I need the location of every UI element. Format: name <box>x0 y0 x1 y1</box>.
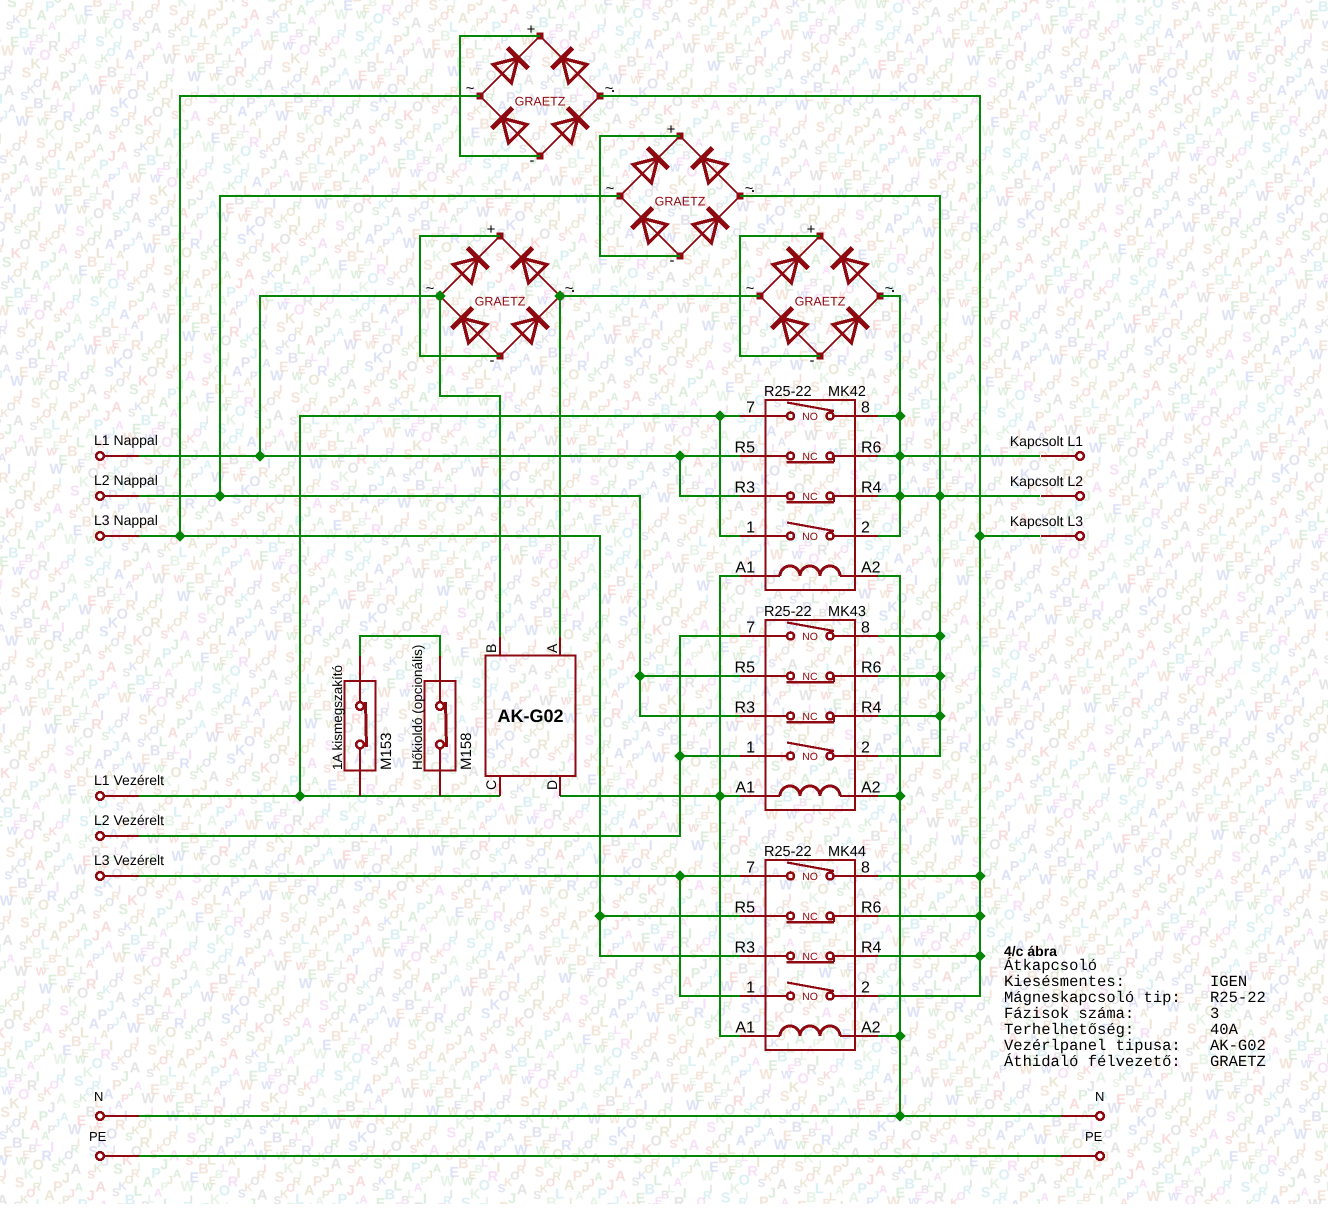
junction (940,636) <box>934 630 945 641</box>
svg-text:R5: R5 <box>735 440 756 457</box>
wire AK-G02 D to MK43 A1 <box>560 795 740 797</box>
title block 4/c abra <box>1004 943 1266 1071</box>
wire G3~ right to AK-G02 pin A <box>559 296 561 637</box>
svg-text:R5: R5 <box>735 900 756 917</box>
junction (440,296) <box>434 290 445 301</box>
svg-text:R6: R6 <box>861 440 882 457</box>
wire N row <box>139 1115 1061 1117</box>
wire bypass G4 (+ to -) <box>740 236 820 356</box>
junction (900,1116) <box>894 1110 905 1121</box>
svg-text:NC: NC <box>802 711 818 723</box>
junction (720,796) <box>714 790 725 801</box>
wire G3~ left to AK-G02 pin B <box>440 296 500 637</box>
wire MK43 R5 row <box>640 675 740 677</box>
svg-text:~: ~ <box>885 280 894 297</box>
svg-text:NO: NO <box>802 531 818 543</box>
wire L3 Nappal row to MK44 R3 <box>139 536 740 956</box>
wire MK43 pin1 row <box>680 755 740 757</box>
svg-text:A1: A1 <box>735 780 755 797</box>
relay contactor R25-22 MK42 <box>735 384 882 590</box>
terminal Kapcsolt L3 <box>1010 513 1084 540</box>
svg-text:C: C <box>483 780 499 790</box>
svg-text:R4: R4 <box>861 700 882 717</box>
wire bypass G3 (+ to -) <box>420 236 500 356</box>
bridge rectifier G1 <box>466 21 615 169</box>
terminal L1 Nappal <box>94 432 158 460</box>
junction (900,456) <box>894 450 905 461</box>
svg-text:NO: NO <box>802 631 818 643</box>
svg-text:R25-22: R25-22 <box>764 844 812 860</box>
terminal L2 Vezérelt <box>94 812 164 840</box>
svg-text:L1 Nappal: L1 Nappal <box>94 432 158 448</box>
svg-text:1: 1 <box>746 740 755 757</box>
svg-text:L3 Nappal: L3 Nappal <box>94 512 158 528</box>
control panel U1 AK-G02 <box>483 637 576 796</box>
terminal L3 Nappal <box>94 512 158 540</box>
junction (260,456) <box>254 450 265 461</box>
svg-text:R4: R4 <box>861 480 882 497</box>
svg-text:PE: PE <box>1085 1129 1103 1144</box>
svg-text:2: 2 <box>861 520 870 537</box>
svg-text:NC: NC <box>802 951 818 963</box>
svg-text:D: D <box>544 780 560 790</box>
junction (980,876) <box>974 870 985 881</box>
terminal PE right <box>1061 1129 1104 1160</box>
svg-text:7: 7 <box>746 860 755 877</box>
svg-text:8: 8 <box>861 860 870 877</box>
svg-text:R25-22: R25-22 <box>764 384 812 400</box>
circuit breaker M153 (1A kismegszakító) <box>330 656 395 796</box>
svg-text:NO: NO <box>802 991 818 1003</box>
svg-text:NO: NO <box>802 751 818 763</box>
wire L2 Nappal row to MK43 R3 <box>139 496 740 716</box>
wire G3~ right to G4~ left <box>560 295 760 297</box>
junction (220,496) <box>214 490 225 501</box>
wire G1~ to L3 Nappal riser <box>180 96 480 536</box>
svg-text:NC: NC <box>802 671 818 683</box>
junction (940,716) <box>934 710 945 721</box>
svg-text:PE: PE <box>89 1129 107 1144</box>
svg-text:1: 1 <box>746 980 755 997</box>
svg-text:NC: NC <box>802 491 818 503</box>
wire L1 Nappal row <box>139 455 740 457</box>
svg-text:L2 Nappal: L2 Nappal <box>94 472 158 488</box>
wire G3~ to L1 Nappal riser <box>260 296 440 456</box>
junction (680,456) <box>674 450 685 461</box>
relay contactor R25-22 MK44 <box>735 844 882 1050</box>
junction (900,796) <box>894 790 905 801</box>
svg-text:-: - <box>810 352 815 369</box>
terminal Kapcsolt L1 <box>1010 433 1084 460</box>
svg-text:~: ~ <box>605 80 614 97</box>
svg-text:~: ~ <box>746 280 755 297</box>
junction (980,956) <box>974 950 985 961</box>
wire G2~ right to MK43 column <box>740 196 940 756</box>
wire MK44 pin8 stub <box>878 875 980 877</box>
junction (900,1036) <box>894 1030 905 1041</box>
svg-text:R3: R3 <box>735 940 756 957</box>
svg-text:NO: NO <box>802 871 818 883</box>
wire G1~ right to MK44 column <box>600 96 980 996</box>
svg-text:~: ~ <box>745 180 754 197</box>
wire bypass G2 (+ to -) <box>600 136 680 256</box>
bridge rectifier G3 <box>426 221 575 369</box>
svg-text:R3: R3 <box>735 480 756 497</box>
svg-text:Hőkioldó (opcionális): Hőkioldó (opcionális) <box>410 645 425 770</box>
svg-text:MK43: MK43 <box>828 604 866 620</box>
wire MK42 pin7 row / riser to L1 Vezerelt <box>300 416 740 796</box>
wire Kapcsolt L1 row <box>878 455 1040 457</box>
svg-text:R25-22: R25-22 <box>764 604 812 620</box>
svg-text:NC: NC <box>802 451 818 463</box>
wire MK44 R5 row <box>600 915 740 917</box>
wire MK43 pin7 to L2 Vezerelt <box>139 636 740 836</box>
svg-text:2: 2 <box>861 980 870 997</box>
svg-text:2: 2 <box>861 740 870 757</box>
wire L3 Vezerelt row <box>139 875 740 877</box>
svg-text:A2: A2 <box>861 560 881 577</box>
relay contactor R25-22 MK43 <box>735 604 882 810</box>
junction (680,756) <box>674 750 685 761</box>
svg-text:-: - <box>490 352 495 369</box>
wire MK43 R6 stub <box>878 675 940 677</box>
svg-text:MK44: MK44 <box>828 844 866 860</box>
svg-text:M153: M153 <box>378 732 395 770</box>
svg-text:Kapcsolt L2: Kapcsolt L2 <box>1010 473 1083 489</box>
wire MK44 R4 stub <box>878 955 980 957</box>
svg-text:L3 Vezérelt: L3 Vezérelt <box>94 852 164 868</box>
junction (560,296) <box>554 290 565 301</box>
wire Kapcsolt L2 row <box>878 495 1040 497</box>
terminal N left <box>94 1089 139 1120</box>
svg-text:7: 7 <box>746 400 755 417</box>
wire G2~ to L2 Nappal riser <box>220 196 620 496</box>
wire PE row <box>139 1155 1061 1157</box>
bridge rectifier G2 <box>606 121 755 269</box>
wire G4~ right to MK42 pin2 column <box>878 296 900 536</box>
wire MK43 pin8 stub <box>878 635 940 637</box>
svg-text:NO: NO <box>802 411 818 423</box>
svg-text:~: ~ <box>466 80 475 97</box>
wire Kapcsolt L3 row <box>980 535 1040 537</box>
wire L1 Vezerelt row <box>139 795 500 797</box>
junction (640,676) <box>634 670 645 681</box>
svg-text:~: ~ <box>426 280 435 297</box>
svg-text:R5: R5 <box>735 660 756 677</box>
junction (980,536) <box>974 530 985 541</box>
svg-text:R3: R3 <box>735 700 756 717</box>
terminal PE left <box>89 1129 139 1160</box>
junction (180,536) <box>174 530 185 541</box>
junction (600,916) <box>594 910 605 921</box>
circuit breaker M158 (Hőkioldó (opcionális)) <box>410 645 475 796</box>
svg-text:A2: A2 <box>861 780 881 797</box>
svg-text:8: 8 <box>861 620 870 637</box>
svg-text:A2: A2 <box>861 1020 881 1037</box>
svg-text:-: - <box>530 152 535 169</box>
svg-text:Áthidaló félvezető:: Áthidaló félvezető: <box>1004 1053 1181 1071</box>
wire MK43 A2 stub <box>878 795 900 797</box>
wire MK42 A1 to MK44 A1 column <box>720 576 740 1036</box>
svg-text:-: - <box>670 252 675 269</box>
terminal L3 Vezérelt <box>94 852 164 880</box>
wire MK44 pin7-pin1 tie <box>680 876 740 996</box>
svg-text:GRAETZ: GRAETZ <box>1210 1053 1266 1071</box>
svg-text:N: N <box>1095 1089 1104 1104</box>
svg-text:N: N <box>94 1089 103 1104</box>
junction (940,676) <box>934 670 945 681</box>
svg-text:R6: R6 <box>861 900 882 917</box>
svg-text:A1: A1 <box>735 560 755 577</box>
junction (980,916) <box>974 910 985 921</box>
bridge rectifier G4 <box>746 221 895 369</box>
wire bypass G1 (+ to -) <box>460 36 540 156</box>
svg-text:L1 Vezérelt: L1 Vezérelt <box>94 772 164 788</box>
svg-text:R4: R4 <box>861 940 882 957</box>
wire MK42 pin8 stub <box>878 415 900 417</box>
junction (720,416) <box>714 410 725 421</box>
junction (900,416) <box>894 410 905 421</box>
wire MK44 R6 stub <box>878 915 980 917</box>
svg-text:MK42: MK42 <box>828 384 866 400</box>
svg-text:~: ~ <box>606 180 615 197</box>
svg-text:1A kismegszakító: 1A kismegszakító <box>330 665 345 770</box>
svg-text:GRAETZ: GRAETZ <box>795 295 846 309</box>
svg-text:~: ~ <box>565 280 574 297</box>
wire MK42 R5-R3 jog <box>680 456 740 496</box>
svg-text:1: 1 <box>746 520 755 537</box>
wire MK44 A2 stub <box>878 1035 900 1037</box>
svg-text:AK-G02: AK-G02 <box>497 706 563 726</box>
svg-text:GRAETZ: GRAETZ <box>515 95 566 109</box>
svg-text:M158: M158 <box>458 732 475 770</box>
terminal Kapcsolt L2 <box>1010 473 1084 500</box>
junction (900,496) <box>894 490 905 501</box>
svg-text:L2 Vezérelt: L2 Vezérelt <box>94 812 164 828</box>
svg-text:8: 8 <box>861 400 870 417</box>
svg-text:GRAETZ: GRAETZ <box>655 195 706 209</box>
svg-text:Kapcsolt L1: Kapcsolt L1 <box>1010 433 1083 449</box>
svg-text:B: B <box>483 644 499 653</box>
svg-text:R6: R6 <box>861 660 882 677</box>
svg-text:NC: NC <box>802 911 818 923</box>
junction (940,496) <box>934 490 945 501</box>
svg-text:A: A <box>544 643 560 653</box>
terminal L2 Nappal <box>94 472 158 500</box>
wire M153-M158 top jumper <box>360 636 440 656</box>
wire MK42 pin7-pin1 tie <box>720 416 740 536</box>
svg-text:A1: A1 <box>735 1020 755 1037</box>
wire MK42 A2 to N column <box>878 576 900 1116</box>
junction (680,876) <box>674 870 685 881</box>
svg-text:7: 7 <box>746 620 755 637</box>
terminal L1 Vezérelt <box>94 772 164 800</box>
svg-text:GRAETZ: GRAETZ <box>475 295 526 309</box>
terminal N right <box>1061 1089 1104 1120</box>
junction (300,796) <box>294 790 305 801</box>
svg-text:Kapcsolt L3: Kapcsolt L3 <box>1010 513 1083 529</box>
wire MK43 R4 stub <box>878 715 940 717</box>
